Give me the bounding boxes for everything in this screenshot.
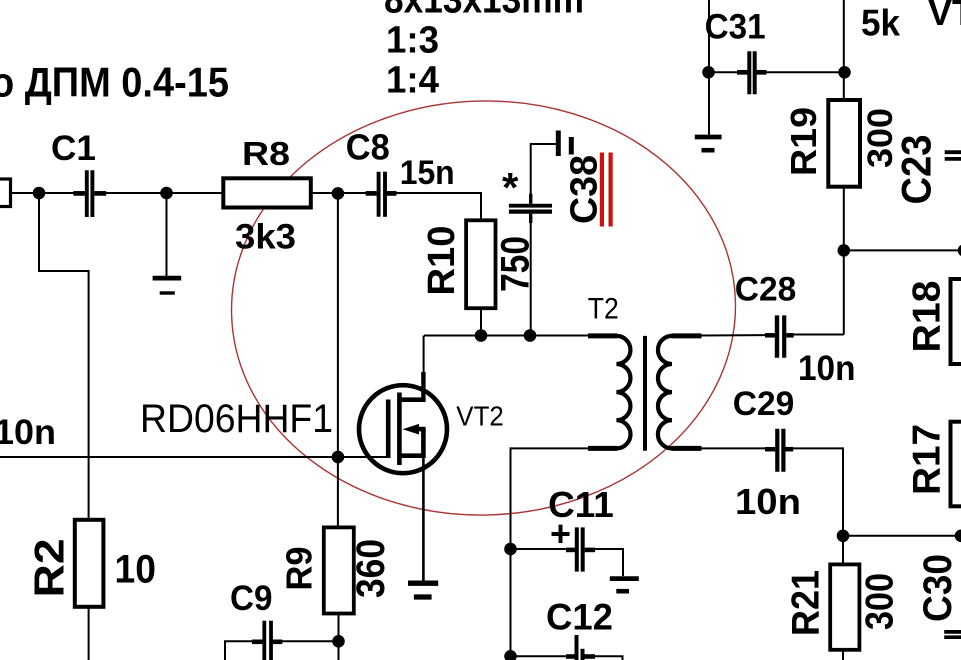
wire to right edge y=250.4: [844, 249, 961, 251]
capacitor C29: [765, 429, 793, 472]
resistor R2: [75, 520, 104, 607]
capacitor C8: [366, 172, 397, 217]
wire from input node down-left jog: [39, 193, 89, 520]
ground C31: [695, 137, 722, 150]
transformer T2 secondary lead top: [672, 333, 702, 338]
svg-text:R2: R2: [26, 539, 73, 598]
svg-text:C9: C9: [230, 579, 273, 618]
wire gate feed y=457: [0, 456, 386, 458]
resistor R10: [466, 220, 495, 308]
wire primary bottom to C11/C12 rail: [511, 448, 590, 660]
wire C29 left lead: [701, 447, 774, 449]
VT2 gate bar: [386, 400, 391, 459]
wire C28 right lead: [793, 334, 844, 336]
wire C31 left riser: [708, 0, 710, 135]
svg-text:R9: R9: [279, 547, 320, 591]
resistor R8: [223, 178, 310, 207]
capacitor C1: [73, 170, 106, 217]
wire C9 left: [225, 641, 262, 660]
VT2 bulk tap with arrow: [412, 427, 426, 432]
transformer T2 primary winding: [616, 336, 630, 449]
node R9/C9 junction: [332, 635, 345, 648]
capacitor * (trimmer): [509, 194, 552, 223]
svg-text:о ДПМ 0.4-15: о ДПМ 0.4-15: [0, 59, 229, 106]
wire C8 to R10: [386, 193, 481, 220]
capacitor C12: [566, 635, 595, 660]
wire star cap upper lead: [531, 144, 557, 202]
wire main input y=193: [9, 192, 83, 194]
red highlight ellipse: [226, 94, 741, 521]
capacitor C9: [252, 621, 282, 660]
transformer T2 secondary winding: [658, 336, 672, 449]
node C12 tap: [504, 650, 517, 660]
node R8/C8 junction: [332, 187, 345, 200]
capacitor C31: [737, 51, 767, 94]
svg-text:R17: R17: [906, 424, 949, 495]
svg-text:1:3: 1:3: [386, 20, 439, 62]
wire drain bus y=335.5: [424, 335, 590, 337]
transformer T2 primary lead top: [588, 333, 617, 338]
svg-text:VT4: VT4: [928, 0, 961, 33]
svg-text:8x13x13mm: 8x13x13mm: [384, 0, 584, 22]
svg-text:R8: R8: [242, 135, 290, 172]
wire C29 right lead down to R21: [791, 448, 844, 563]
wire gate drop x=338: [337, 193, 339, 527]
svg-text:C29: C29: [733, 385, 795, 423]
svg-text:R19: R19: [783, 107, 824, 176]
wire drain riser: [423, 336, 425, 387]
svg-text:C28: C28: [735, 270, 797, 308]
wire C31 left lead: [709, 71, 746, 73]
capacitor C38 second plate: [569, 137, 574, 155]
wire to right edge y=535.8: [843, 535, 961, 537]
svg-text:10n: 10n: [798, 349, 856, 388]
svg-text:15n: 15n: [400, 154, 455, 192]
wire R10 bottom: [480, 308, 482, 335]
svg-text:C38: C38: [563, 155, 605, 224]
ground C11: [610, 579, 639, 592]
svg-text:C8: C8: [346, 126, 390, 167]
node input junction: [33, 187, 46, 200]
wire below R2: [88, 607, 90, 660]
wire C31 right lead: [762, 71, 844, 73]
svg-text:5k: 5k: [861, 2, 900, 43]
capacitor C30 partial: [944, 632, 961, 637]
wire R8 to C8: [311, 192, 372, 194]
svg-text:+: +: [550, 513, 571, 554]
node gate junction: [332, 451, 345, 464]
node R21 top: [837, 530, 850, 543]
node at right edge y=535.8: [955, 530, 961, 543]
resistor R18 partial: [951, 279, 961, 364]
resistor R9: [324, 527, 354, 613]
svg-text:300: 300: [859, 573, 902, 630]
VT2 source bar: [421, 429, 426, 457]
resistor R19: [828, 100, 860, 187]
svg-text:*: *: [502, 164, 519, 211]
transistor VT2 body: [359, 385, 447, 473]
svg-text:C1: C1: [51, 129, 96, 168]
svg-text:1:4: 1:4: [386, 60, 439, 102]
node star-cap foot: [524, 329, 537, 342]
node C31 left: [702, 66, 715, 79]
svg-text:R21: R21: [785, 570, 828, 636]
VT2 drain lead: [421, 372, 425, 400]
wire C28 left lead: [701, 334, 777, 336]
resistor R17 partial: [951, 422, 961, 507]
svg-text:360: 360: [349, 539, 393, 598]
capacitor C28: [765, 315, 794, 357]
capacitor C23 partial: [945, 152, 961, 159]
svg-text:10: 10: [115, 548, 157, 592]
node R10 foot: [475, 329, 488, 342]
red edit mark lines: [602, 153, 611, 227]
wire R19 bottom: [843, 187, 845, 335]
VT2 source tap: [399, 453, 425, 458]
wire C12 left lead: [511, 655, 574, 657]
svg-text:C31: C31: [705, 8, 766, 47]
svg-text:C23: C23: [893, 135, 940, 205]
VT2 drain tap: [399, 397, 425, 402]
wire C11 right lead to ground: [586, 549, 624, 576]
wire star cap lower lead: [530, 222, 532, 336]
ground VT2 source: [408, 583, 438, 597]
svg-text:C30: C30: [916, 554, 960, 622]
transformer T2 primary lead bottom: [588, 446, 617, 451]
node C1-ground junction: [160, 187, 173, 200]
svg-text:R10: R10: [421, 226, 463, 296]
svg-text:VT2: VT2: [456, 401, 504, 432]
wire R19 top riser: [843, 0, 845, 100]
transformer T2 secondary lead bottom: [672, 446, 702, 451]
transformer T2 core: [643, 336, 647, 451]
svg-text:10n: 10n: [0, 413, 56, 452]
VT2 channel bar: [397, 393, 402, 466]
svg-text:750: 750: [494, 236, 538, 292]
svg-text:C12: C12: [546, 596, 613, 637]
svg-text:T2: T2: [588, 293, 619, 326]
wire below R9: [338, 614, 340, 660]
wire C9 right: [274, 640, 339, 642]
ground: [153, 278, 182, 293]
node at right edge y=250.4: [958, 244, 961, 257]
svg-text:R18: R18: [906, 281, 949, 353]
capacitor C11: [566, 527, 595, 571]
svg-text:10n: 10n: [735, 481, 801, 522]
wire C12 right lead: [587, 656, 623, 660]
capacitor C38 open plate: [556, 131, 561, 157]
node R19 top: [838, 66, 851, 79]
node C11 tap: [504, 543, 517, 556]
wire source to ground: [422, 458, 425, 581]
wire C11 left lead: [511, 548, 571, 550]
resistor R21: [830, 564, 859, 649]
connector box at left edge: [0, 179, 11, 207]
wire below R21: [842, 650, 844, 660]
svg-text:RD06HHF1: RD06HHF1: [140, 397, 333, 441]
wire C1 to R8: [97, 192, 224, 194]
node R19 output: [838, 244, 851, 257]
wire down from node to ground: [166, 193, 168, 276]
svg-text:3k3: 3k3: [235, 217, 296, 256]
